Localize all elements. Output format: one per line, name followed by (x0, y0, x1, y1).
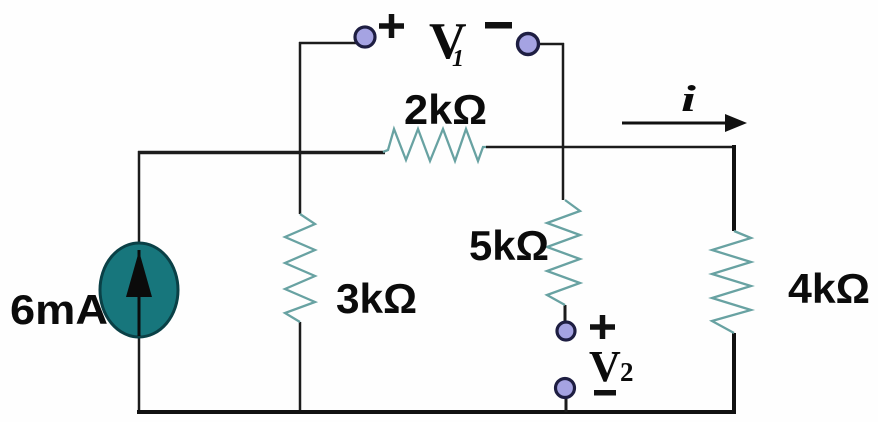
resistor R1 2kOhm horizontal zigzag (383, 129, 486, 161)
plus sign for V1 (379, 14, 404, 38)
svg-text:3kΩ: 3kΩ (336, 275, 417, 322)
node V2 plus terminal (557, 322, 575, 340)
wire right vertical below 4k (732, 333, 736, 412)
resistor R3 5kOhm vertical zigzag (547, 200, 580, 305)
wire vertical branch down to 5k (562, 43, 565, 200)
wire top-right from node V1- to right branch (537, 43, 564, 46)
resistor R4 4kOhm vertical zigzag (712, 231, 751, 333)
svg-text:6mA: 6mA (10, 286, 108, 333)
node V1 plus terminal (355, 27, 375, 47)
svg-text:2: 2 (620, 357, 634, 387)
svg-text:V: V (589, 342, 621, 391)
svg-text:i: i (681, 78, 696, 119)
wire 3k bottom lead (299, 322, 302, 412)
svg-text:1: 1 (452, 46, 464, 72)
wire left vertical above current source (138, 151, 141, 245)
node V2 minus terminal (556, 379, 575, 398)
wire right vertical above 4k (732, 145, 736, 231)
svg-text:5kΩ: 5kΩ (469, 222, 549, 269)
current source arrow (138, 250, 141, 336)
current arrow i (622, 122, 731, 125)
minus sign for V1 (485, 22, 512, 29)
minus sign for V2 (594, 390, 616, 396)
node V1 minus terminal (518, 34, 539, 55)
svg-text:4kΩ: 4kΩ (788, 265, 870, 312)
wire left vertical branch through 3k top (299, 42, 302, 214)
wire 5k bottom stub to node (564, 305, 567, 324)
resistor R2 3kOhm vertical zigzag (285, 214, 315, 322)
plus sign for V2 (590, 315, 615, 339)
wire main horizontal right segment (486, 146, 735, 149)
wire stub below V2 node to bottom rail (565, 396, 568, 412)
wire main horizontal left segment (138, 151, 385, 155)
wire bottom rail (137, 410, 736, 414)
svg-text:2kΩ: 2kΩ (404, 86, 487, 133)
wire left vertical below current source (138, 335, 141, 412)
current source I1 6mA ellipse (100, 243, 178, 337)
wire top-left from node V1+ to left branch (299, 42, 358, 45)
